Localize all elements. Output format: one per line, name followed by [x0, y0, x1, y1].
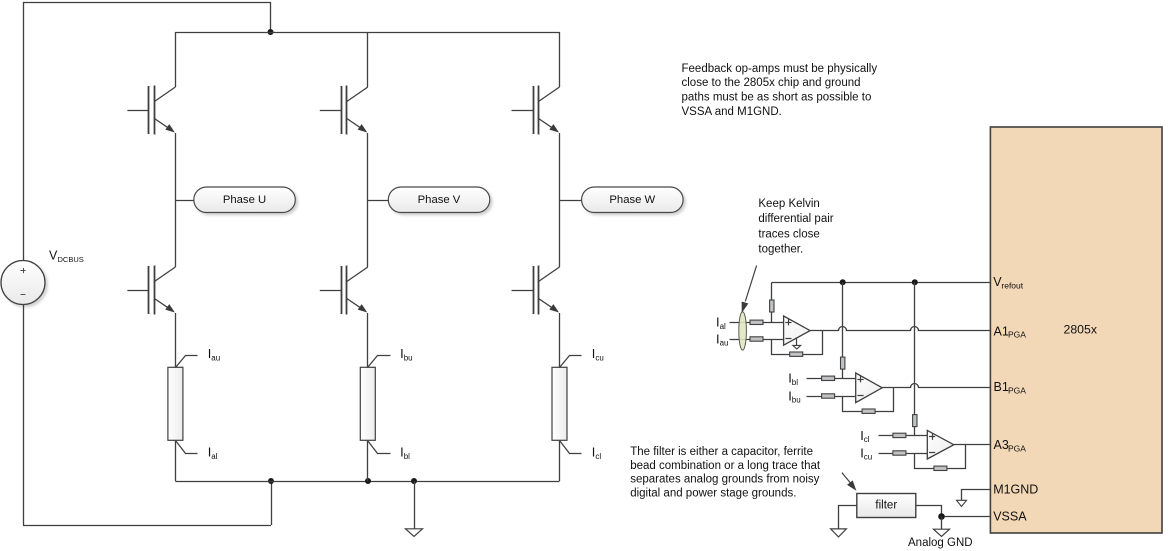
label I_cl [592, 445, 602, 461]
label I_bu [788, 388, 801, 404]
wire shunt RV to negative rail [367, 440, 369, 481]
svg-text:differential pair: differential pair [758, 213, 833, 225]
wire positive DC rail [175, 32, 559, 34]
wire bias drop U2A [842, 282, 844, 378]
svg-text:separates analog grounds from: separates analog grounds from noisy [630, 474, 819, 486]
svg-text:refout: refout [1001, 281, 1023, 291]
wire source positive lead [23, 2, 25, 261]
op-amp U2A [856, 373, 883, 403]
svg-text:DCBUS: DCBUS [58, 255, 84, 264]
junction dot rail bias op-amp U3 [912, 279, 918, 285]
leader I_au upper sense tap [176, 356, 198, 368]
svg-text:digital and power stage ground: digital and power stage grounds. [630, 487, 796, 499]
ground M1GND [957, 500, 967, 506]
arrow annotation to Kelvin pair [742, 266, 757, 314]
svg-text:cl: cl [595, 452, 601, 461]
wire negative DC rail [175, 481, 559, 483]
resistor shunt RV phase V [360, 367, 375, 440]
label I_bl [788, 371, 798, 387]
pin Vrefout label [993, 275, 1024, 290]
wire collector Q5 phase W high-side [559, 32, 561, 87]
svg-text:bead combination or a long tra: bead combination or a long trace that [630, 460, 821, 472]
wire phase W midpoint [559, 133, 561, 267]
wire feedback U2A [843, 388, 894, 412]
wire top bus from source to junction [23, 2, 271, 4]
svg-text:al: al [720, 322, 726, 331]
label I_bu [400, 346, 413, 362]
resistor input + U3A [893, 433, 906, 437]
label I_au [716, 331, 729, 347]
op-amp U3A [927, 430, 954, 459]
transistor Q5 IGBT phase W high-side [512, 86, 560, 135]
svg-text:au: au [720, 339, 729, 348]
leader I_bu upper sense tap [368, 356, 391, 368]
transistor Q6 IGBT phase W low-side [512, 266, 560, 315]
junction dot rail bias op-amp U2 [840, 279, 846, 285]
IC U1 part number label 2805x [1064, 323, 1098, 337]
resistor bias U1A [770, 300, 774, 312]
wire U2A - input I_bu [807, 396, 856, 398]
wire phase U tap [175, 200, 193, 202]
transistor Q4 IGBT phase V low-side [320, 266, 368, 315]
svg-text:bu: bu [792, 396, 801, 405]
label V_DCBUS [49, 249, 84, 265]
svg-text:traces close: traces close [758, 228, 819, 240]
svg-text:filter: filter [875, 500, 897, 512]
pin VSSA label [993, 510, 1027, 524]
ground filter left [831, 529, 847, 537]
transistor Q1 IGBT phase U high-side [127, 86, 175, 135]
svg-text:Keep Kelvin: Keep Kelvin [758, 198, 819, 210]
svg-text:paths must be as short as poss: paths must be as short as possible to [682, 92, 872, 104]
wire VSSA node to analog ground [941, 517, 943, 530]
resistor shunt RW phase W [552, 367, 567, 440]
wire feedback U1A [772, 331, 823, 355]
wire U1A + input I_al [730, 322, 784, 324]
wire drop from top bus [270, 2, 272, 32]
wire emitter Q6 to shunt [559, 313, 561, 367]
label I_al [716, 315, 726, 331]
resistor shunt RU phase U [168, 367, 183, 440]
wire bias drop U3A [914, 282, 916, 435]
transistor Q3 IGBT phase V high-side [320, 86, 368, 135]
resistor feedback U1A [790, 352, 803, 356]
wire U3A + input I_cl [879, 435, 928, 437]
wire A3 output to chip [954, 444, 991, 446]
resistor feedback U3A [934, 466, 947, 470]
wire emitter Q2 to shunt [175, 313, 177, 367]
svg-text:bl: bl [792, 378, 798, 387]
resistor input - U3A [893, 451, 906, 455]
leader I_cl lower sense tap [560, 441, 582, 454]
wire B1 output to chip with hop [883, 384, 991, 388]
wire return riser [271, 481, 273, 525]
op-amp U1A [784, 316, 811, 345]
ground Analog GND [934, 529, 950, 536]
svg-text:A3: A3 [994, 438, 1009, 452]
filter block [857, 494, 916, 518]
resistor input + U1A [750, 320, 763, 324]
IC U1 2805x motor-control chip body [990, 127, 1162, 533]
label I_al [208, 445, 218, 461]
wire collector Q3 phase V high-side [367, 32, 369, 87]
svg-text:VSSA: VSSA [993, 510, 1027, 524]
svg-text:B1: B1 [994, 380, 1009, 394]
pin B1 PGA label [994, 380, 1027, 395]
ground power stage [406, 529, 423, 537]
arrow annotation to filter [842, 473, 857, 491]
annotation Kelvin pair note [758, 198, 833, 256]
wire phase V midpoint [367, 133, 369, 267]
svg-text:cu: cu [595, 354, 603, 363]
junction dot phase V leg on negative rail [365, 478, 371, 484]
wire filter right to VSSA node [916, 506, 942, 517]
annotation filter note [630, 446, 821, 499]
pin A1 PGA label [994, 324, 1027, 339]
wire collector Q1 phase U high-side [175, 32, 177, 87]
voltage source V_DCBUS circle [1, 261, 45, 305]
wire source negative lead [23, 305, 25, 526]
label I_au [208, 346, 221, 362]
svg-text:PGA: PGA [1008, 386, 1026, 396]
transistor Q2 IGBT phase U low-side [127, 266, 175, 315]
svg-text:Phase V: Phase V [418, 194, 461, 206]
label I_cu [860, 445, 872, 461]
wire shunt RU to negative rail [175, 440, 177, 481]
node Phase V stadium label [388, 187, 490, 213]
wire A1 output to chip with hops [811, 327, 991, 331]
svg-text:M1GND: M1GND [993, 482, 1038, 496]
svg-text:cu: cu [864, 453, 872, 462]
wire bottom return [23, 525, 271, 527]
wire U3A - input I_cu [879, 453, 928, 455]
wire phase V tap [368, 200, 389, 202]
junction dot bottom-left [268, 478, 274, 484]
resistor bias U2A [841, 357, 845, 369]
svg-text:cl: cl [864, 435, 870, 444]
leader I_cu upper sense tap [560, 356, 582, 368]
pin M1GND label [993, 482, 1038, 496]
svg-text:Feedback op-amps must be physi: Feedback op-amps must be physically [682, 63, 878, 75]
junction dot ground stub on negative rail [411, 478, 417, 484]
resistor input - U2A [822, 394, 835, 398]
svg-text:A1: A1 [994, 324, 1009, 338]
wire bias drop U1A [771, 282, 773, 322]
node Phase U stadium label [194, 187, 295, 213]
wire phase W tap [560, 200, 582, 202]
wire Vrefout rail [772, 282, 991, 284]
wire feedback U3A [915, 445, 966, 469]
ground op-amp U1A [793, 338, 801, 349]
resistor feedback U2A [862, 409, 875, 413]
leader I_bl lower sense tap [368, 441, 391, 454]
svg-text:Phase U: Phase U [223, 194, 266, 206]
svg-text:bl: bl [404, 452, 410, 461]
wire M1GND to ground [962, 490, 991, 501]
label Analog GND [908, 537, 973, 549]
svg-text:PGA: PGA [1008, 330, 1026, 340]
label I_bl [400, 445, 410, 461]
svg-text:al: al [211, 452, 217, 461]
resistor input + U2A [822, 376, 835, 380]
svg-text:bu: bu [404, 354, 413, 363]
pin A3 PGA label [994, 438, 1027, 453]
wire U2A + input I_bl [807, 378, 856, 380]
ellipse Kelvin pair highlight [739, 312, 747, 350]
resistor input - U1A [750, 337, 763, 341]
annotation feedback op-amps note [682, 63, 878, 118]
svg-text:Phase W: Phase W [609, 194, 655, 206]
wire filter left to ground [839, 506, 857, 529]
wire VSSA pin [942, 516, 991, 518]
wire U1A - input I_au [730, 339, 784, 341]
svg-text:au: au [211, 354, 220, 363]
label I_cl [860, 428, 870, 444]
svg-text:Analog GND: Analog GND [908, 537, 973, 549]
junction dot top bus [268, 29, 274, 35]
wire phase U midpoint [175, 133, 177, 267]
svg-text:PGA: PGA [1008, 444, 1026, 454]
wire emitter Q4 to shunt [367, 313, 369, 367]
svg-text:2805x: 2805x [1064, 323, 1098, 337]
svg-text:VSSA and M1GND.: VSSA and M1GND. [682, 106, 782, 118]
resistor bias U3A [913, 415, 917, 427]
leader I_al lower sense tap [176, 441, 198, 454]
wire shunt RW to negative rail [559, 440, 561, 481]
svg-text:together.: together. [758, 244, 803, 256]
junction dot VSSA analog ground [938, 513, 945, 520]
node Phase W stadium label [582, 187, 684, 213]
svg-text:close to the 2805x chip and gr: close to the 2805x chip and ground [682, 77, 861, 89]
label I_cu [592, 346, 604, 362]
svg-text:The filter is either a capacit: The filter is either a capacitor, ferrit… [630, 446, 813, 458]
wire ground stub [414, 481, 416, 529]
